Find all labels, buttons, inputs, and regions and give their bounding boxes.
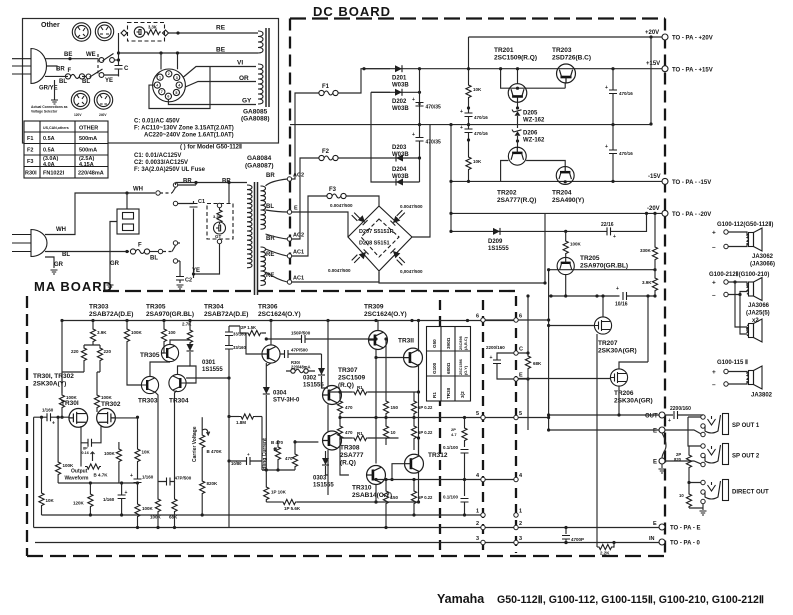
resistor 100K gate b bbox=[97, 372, 100, 393]
svg-text:TO - PA - E: TO - PA - E bbox=[670, 526, 701, 532]
svg-text:D205: D205 bbox=[523, 111, 538, 117]
svg-text:(R.Q): (R.Q) bbox=[340, 460, 356, 467]
wire idle bus bbox=[262, 417, 295, 471]
transistor TR205 bbox=[557, 257, 574, 274]
svg-text:240V: 240V bbox=[99, 113, 107, 117]
diode 0301 bbox=[187, 344, 194, 351]
svg-text:TR309: TR309 bbox=[364, 304, 384, 311]
svg-text:2SA777: 2SA777 bbox=[340, 452, 364, 459]
svg-text:–: – bbox=[712, 292, 716, 299]
resistor 470 a bbox=[328, 392, 352, 399]
svg-text:W03B: W03B bbox=[392, 174, 409, 180]
svg-text:WE: WE bbox=[86, 52, 96, 58]
lamp connector top bbox=[217, 203, 221, 207]
svg-text:150: 150 bbox=[391, 405, 399, 410]
fet TR301 bbox=[69, 409, 88, 428]
resistor 220 left bbox=[83, 345, 85, 346]
svg-text:330K: 330K bbox=[640, 248, 652, 253]
svg-text:–: – bbox=[712, 382, 716, 389]
TR302 gate wire right bbox=[115, 417, 137, 447]
svg-text:TR302: TR302 bbox=[101, 401, 121, 408]
svg-text:4.7: 4.7 bbox=[451, 432, 457, 437]
jack SP OUT 1 bbox=[705, 414, 729, 435]
DC board right border bbox=[664, 19, 666, 557]
drain resistor 100K c bbox=[118, 442, 120, 447]
svg-text:2200/160: 2200/160 bbox=[670, 406, 691, 412]
resistor 100K gate a bbox=[62, 372, 84, 393]
wires direct out bbox=[689, 474, 701, 492]
svg-text:D207 S5151R: D207 S5151R bbox=[359, 229, 394, 235]
resistor 5P0.22 a bbox=[413, 392, 415, 399]
svg-text:0304: 0304 bbox=[273, 391, 287, 397]
capacitor 470/16 b bbox=[465, 129, 473, 133]
wire TR201 collector to +15 rail bbox=[501, 69, 566, 89]
mid rail bbox=[290, 124, 651, 126]
svg-text:G100-212Ⅱ(G100-210): G100-212Ⅱ(G100-210) bbox=[709, 271, 769, 278]
TR310 emitter row bbox=[376, 501, 419, 503]
svg-text:3.9K: 3.9K bbox=[642, 280, 652, 285]
+15V rail bbox=[420, 68, 666, 70]
svg-text:+20V: +20V bbox=[645, 30, 659, 36]
svg-text:F: F bbox=[138, 243, 142, 249]
svg-text:10/80: 10/80 bbox=[231, 461, 242, 466]
source coupling cap 8P/0.16 bbox=[81, 426, 101, 443]
capacitor 2200/160 out bbox=[665, 414, 701, 416]
svg-text:0.1/100: 0.1/100 bbox=[443, 495, 459, 500]
svg-text:10: 10 bbox=[679, 493, 684, 498]
svg-text:120K: 120K bbox=[73, 501, 85, 506]
selector box frame bbox=[23, 19, 279, 144]
svg-text:D203: D203 bbox=[392, 145, 407, 151]
svg-text:3(2: 3(2 bbox=[460, 391, 465, 398]
svg-text:R30I: R30I bbox=[25, 171, 37, 177]
svg-text:Carrier Voltage: Carrier Voltage bbox=[192, 426, 198, 462]
bias row wire bbox=[549, 295, 655, 297]
fet TR206 bbox=[610, 369, 627, 386]
svg-text:0.5A: 0.5A bbox=[43, 148, 55, 154]
svg-text:100K: 100K bbox=[63, 463, 75, 468]
svg-text:IN: IN bbox=[649, 536, 655, 542]
wire AC2b to F2 bbox=[292, 158, 319, 239]
wire AC2 to F1 bbox=[292, 93, 319, 179]
svg-text:JA3802: JA3802 bbox=[751, 393, 773, 399]
lamp dashed box lower bbox=[207, 204, 233, 240]
svg-text:D201: D201 bbox=[392, 76, 407, 82]
svg-text:TR205: TR205 bbox=[580, 255, 600, 262]
svg-text:TR3II: TR3II bbox=[446, 388, 451, 399]
switch YE bbox=[86, 69, 104, 79]
svg-text:TR30I: TR30I bbox=[61, 400, 79, 407]
svg-text:+: + bbox=[52, 421, 55, 427]
svg-text:AC2: AC2 bbox=[293, 233, 304, 239]
resistor 3.3K lamp bbox=[219, 207, 221, 209]
diode D204 bbox=[371, 158, 420, 182]
svg-text:0,0047/500: 0,0047/500 bbox=[400, 269, 423, 274]
wire +20 to right column bbox=[650, 37, 652, 124]
svg-text:100K: 100K bbox=[570, 242, 582, 247]
svg-text:10K: 10K bbox=[473, 87, 482, 92]
svg-text:100K: 100K bbox=[101, 395, 113, 400]
svg-text:C: 0.01/AC 450V: C: 0.01/AC 450V bbox=[134, 119, 180, 125]
resistor 150 a bbox=[385, 339, 387, 399]
capacitor 1/160 b bbox=[121, 483, 123, 495]
diode 0303 bbox=[325, 451, 327, 458]
svg-text:1: 1 bbox=[519, 509, 522, 515]
AC terminal circles on DC border bbox=[287, 177, 291, 181]
svg-text:TR312: TR312 bbox=[428, 452, 448, 459]
svg-text:W03B: W03B bbox=[392, 83, 409, 89]
TR308 base wire bbox=[295, 442, 318, 452]
svg-text:2: 2 bbox=[168, 72, 170, 76]
svg-text:TR303: TR303 bbox=[89, 304, 109, 311]
svg-text:2.2K: 2.2K bbox=[600, 551, 610, 556]
wire AC1 to F3 bbox=[292, 196, 327, 256]
transistor TR204 bbox=[556, 167, 574, 185]
secondary to terminal wires bbox=[266, 179, 288, 282]
resistor 100K e col158 bbox=[155, 392, 159, 498]
svg-text:6: 6 bbox=[167, 95, 169, 99]
resistor 820K bbox=[200, 479, 205, 495]
svg-text:100K: 100K bbox=[142, 506, 154, 511]
MA board top border bbox=[103, 290, 517, 292]
svg-text:470/16: 470/16 bbox=[619, 91, 633, 96]
svg-text:GT: GT bbox=[215, 234, 222, 239]
wire E1 to jack1 sleeve bbox=[665, 430, 701, 434]
svg-text:Yamaha: Yamaha bbox=[437, 592, 485, 606]
svg-text:5: 5 bbox=[519, 411, 522, 417]
svg-text:2SK30A(GR): 2SK30A(GR) bbox=[598, 348, 637, 355]
svg-text:+: + bbox=[490, 355, 493, 361]
transistor TR203 bbox=[557, 64, 576, 83]
svg-text:GA8085: GA8085 bbox=[243, 109, 268, 116]
diode D201 bbox=[364, 68, 420, 70]
diode 0302 bbox=[321, 354, 323, 368]
svg-text:2SC1624(O.Y): 2SC1624(O.Y) bbox=[258, 311, 301, 318]
svg-text:SP OUT 1: SP OUT 1 bbox=[732, 423, 760, 429]
svg-text:( ) for Model G50-112Ⅱ: ( ) for Model G50-112Ⅱ bbox=[180, 144, 242, 151]
svg-text:GR: GR bbox=[54, 262, 64, 268]
resistor 470 idle bbox=[294, 440, 296, 442]
left mid vertical bbox=[228, 378, 230, 528]
svg-text:5P 0.22: 5P 0.22 bbox=[418, 430, 433, 435]
row5 to OUT column bbox=[518, 417, 548, 419]
svg-text:G100-115 Ⅱ: G100-115 Ⅱ bbox=[717, 359, 748, 366]
svg-text:SP OUT 2: SP OUT 2 bbox=[732, 454, 760, 460]
svg-text:1/160: 1/160 bbox=[142, 475, 154, 480]
ground (plug upper) bbox=[51, 100, 58, 104]
svg-text:100K: 100K bbox=[104, 451, 116, 456]
fusible R301 bbox=[291, 369, 308, 373]
capacitor C2 bbox=[179, 261, 181, 283]
svg-text:4: 4 bbox=[156, 84, 158, 88]
right filter column lower cap 470/16 bbox=[612, 125, 614, 150]
svg-text:STV-3H-0: STV-3H-0 bbox=[273, 398, 300, 404]
svg-text:(JA25(5): (JA25(5) bbox=[746, 311, 770, 317]
wire lamp box to RE bbox=[169, 32, 259, 34]
-20V rail bbox=[451, 212, 665, 214]
svg-text:MA BOARD: MA BOARD bbox=[34, 279, 113, 294]
resistor 1P 10K bbox=[264, 485, 269, 501]
svg-text:1P 10K: 1P 10K bbox=[271, 490, 287, 495]
wire E2 to jack2 sleeve bbox=[665, 461, 701, 464]
jack DIRECT OUT circles bbox=[701, 480, 705, 484]
cap 2200/160 C-E bbox=[497, 353, 514, 379]
svg-text:D208 S5151: D208 S5151 bbox=[359, 241, 390, 247]
svg-text:500mA: 500mA bbox=[79, 136, 97, 142]
transistor TR312 bbox=[405, 454, 424, 473]
svg-text:TR310: TR310 bbox=[352, 485, 372, 492]
MA board connector border bbox=[482, 300, 484, 553]
svg-text:TR308: TR308 bbox=[340, 445, 360, 452]
svg-text:5P 0.22: 5P 0.22 bbox=[418, 495, 433, 500]
svg-text:-20V: -20V bbox=[647, 206, 660, 212]
svg-text:820K: 820K bbox=[207, 481, 219, 486]
OUT terminal bbox=[659, 412, 665, 418]
plug lower ground bbox=[45, 257, 54, 268]
feedback cap 150P/500 bbox=[266, 338, 376, 340]
svg-text:GA8084: GA8084 bbox=[247, 155, 272, 162]
resistor 3.9K input bbox=[92, 321, 94, 328]
svg-text:820: 820 bbox=[674, 457, 682, 462]
capacitor 470/16 a bbox=[465, 113, 473, 117]
svg-text:2: 2 bbox=[519, 521, 522, 527]
resistor 2.2K bbox=[597, 544, 613, 549]
cap 4700P bbox=[565, 528, 567, 535]
DC board left border bbox=[289, 19, 291, 289]
svg-text:1S1555: 1S1555 bbox=[202, 367, 223, 373]
speaker 2b bbox=[747, 319, 762, 342]
speaker 1 wires bbox=[728, 232, 747, 247]
svg-text:E: E bbox=[653, 521, 657, 527]
svg-text:C2: 0.0033/AC125V: C2: 0.0033/AC125V bbox=[134, 160, 188, 166]
capacitor C bbox=[118, 33, 120, 76]
jack SP OUT 1 circles bbox=[701, 415, 705, 419]
transformer GA8085 core bbox=[266, 28, 269, 107]
svg-text:1: 1 bbox=[476, 509, 479, 515]
svg-text:100K: 100K bbox=[131, 330, 143, 335]
cap 47P/500 m bbox=[280, 353, 322, 355]
resistor 220 right bbox=[99, 345, 101, 346]
svg-text:WH: WH bbox=[56, 227, 66, 233]
fet TR207 bbox=[594, 317, 611, 334]
capacitor 10/16 bbox=[623, 292, 627, 300]
TR303-TR305 links bbox=[150, 340, 190, 376]
svg-text:OTHER: OTHER bbox=[79, 126, 98, 132]
bridge bottom wire to -20 bbox=[379, 213, 545, 283]
vertical bridge plus rail bbox=[450, 125, 452, 232]
fuse table frame bbox=[24, 121, 108, 178]
resistor 5P0.22 b bbox=[413, 418, 415, 425]
diode D203 bbox=[371, 157, 420, 159]
connector WH bbox=[156, 191, 160, 195]
svg-text:Waveform: Waveform bbox=[65, 476, 90, 482]
svg-text:C: C bbox=[124, 66, 129, 72]
svg-text:TO - PA - -15V: TO - PA - -15V bbox=[672, 180, 711, 186]
svg-text:W03B: W03B bbox=[392, 106, 409, 112]
wire BR stub bbox=[47, 66, 57, 70]
resistor 1.8M bbox=[229, 416, 239, 418]
switch WE bbox=[99, 54, 114, 63]
resistor 120K bbox=[89, 483, 91, 492]
fuse F lower bbox=[130, 249, 149, 254]
svg-text:0.0047/500: 0.0047/500 bbox=[328, 268, 351, 273]
svg-text:BL: BL bbox=[82, 79, 90, 85]
svg-text:C1: 0.01/AC125V: C1: 0.01/AC125V bbox=[134, 153, 181, 159]
svg-text:JA3066: JA3066 bbox=[748, 303, 770, 309]
svg-text:BE: BE bbox=[64, 52, 72, 58]
octal socket bbox=[153, 69, 186, 102]
top wire to transformer bbox=[176, 183, 248, 204]
pilot lamp bbox=[134, 27, 144, 37]
svg-text:+: + bbox=[412, 132, 415, 138]
svg-text:3: 3 bbox=[519, 536, 522, 542]
svg-text:B 470: B 470 bbox=[271, 440, 284, 445]
svg-text:WZ-162: WZ-162 bbox=[523, 118, 545, 124]
svg-text:3: 3 bbox=[176, 76, 178, 80]
svg-text:2SAB72A(D.E): 2SAB72A(D.E) bbox=[204, 311, 248, 318]
svg-text:47P/500: 47P/500 bbox=[291, 348, 308, 353]
svg-text:F3: F3 bbox=[27, 159, 33, 165]
svg-text:TR305: TR305 bbox=[146, 304, 166, 311]
svg-text:F: 3A(2.0A)250V UL Fuse: F: 3A(2.0A)250V UL Fuse bbox=[134, 167, 206, 173]
svg-text:680Ω: 680Ω bbox=[446, 362, 451, 374]
svg-text:E: E bbox=[519, 373, 523, 379]
svg-text:(JA3066): (JA3066) bbox=[750, 262, 775, 268]
svg-text:TR303: TR303 bbox=[138, 398, 158, 405]
svg-text:(GA8087): (GA8087) bbox=[245, 163, 274, 170]
bridge diodes bbox=[358, 215, 368, 225]
svg-text:3.3K: 3.3K bbox=[213, 214, 222, 219]
ground C2 bbox=[177, 285, 184, 289]
transistor TR305 bbox=[161, 344, 178, 361]
voltage selector roundel top-right bbox=[95, 22, 113, 40]
svg-text:0301: 0301 bbox=[202, 360, 216, 366]
svg-text:RE: RE bbox=[266, 252, 274, 258]
svg-text:TR304: TR304 bbox=[204, 304, 224, 311]
transistor TR309 bbox=[369, 331, 388, 350]
svg-text:500mA: 500mA bbox=[79, 148, 97, 154]
svg-text:FN1022I: FN1022I bbox=[43, 171, 65, 177]
svg-text:2SD726(B.C): 2SD726(B.C) bbox=[552, 55, 591, 62]
diode D202 bbox=[371, 91, 420, 93]
R1 selection table bbox=[427, 327, 471, 402]
E terminal 2 bbox=[659, 458, 665, 464]
svg-text:Idling Current: Idling Current bbox=[262, 438, 268, 471]
svg-text:F3: F3 bbox=[329, 187, 337, 193]
lamp connector bottom bbox=[217, 239, 221, 243]
svg-text:470/16: 470/16 bbox=[474, 131, 488, 136]
resistor 68K muting bbox=[527, 296, 529, 354]
left rail down bbox=[61, 321, 63, 394]
svg-text:4.0A: 4.0A bbox=[43, 162, 55, 168]
svg-text:2SA970(GR.BL): 2SA970(GR.BL) bbox=[146, 311, 194, 318]
zener D206 bbox=[517, 116, 519, 128]
transistor TR304 bbox=[169, 374, 186, 391]
TR205 base wire bbox=[549, 270, 655, 430]
svg-text:0.0047/500: 0.0047/500 bbox=[400, 204, 423, 209]
svg-text:-15V: -15V bbox=[648, 174, 661, 180]
-15V rail bbox=[451, 180, 665, 182]
svg-text:+: + bbox=[460, 125, 463, 131]
svg-text:G100: G100 bbox=[432, 362, 437, 374]
wires C/E to 68K column bbox=[518, 353, 528, 379]
ground (selector) bbox=[107, 285, 114, 289]
svg-text:TR305: TR305 bbox=[140, 352, 160, 359]
svg-text:TR3II: TR3II bbox=[398, 338, 414, 345]
voltage selector plug block bbox=[117, 209, 139, 234]
E terminal 1 bbox=[659, 427, 665, 433]
svg-text:1S1555: 1S1555 bbox=[313, 483, 334, 489]
MA/DC board bottom border bbox=[27, 555, 665, 557]
svg-text:2SC1624(O.Y): 2SC1624(O.Y) bbox=[364, 311, 407, 318]
svg-text:2SK30A(GR): 2SK30A(GR) bbox=[614, 398, 653, 405]
speaker 3 bbox=[747, 366, 762, 389]
transistor TR303 bbox=[141, 376, 158, 393]
svg-text:TR206: TR206 bbox=[614, 390, 634, 397]
svg-text:33/160: 33/160 bbox=[233, 345, 246, 350]
svg-text:BR: BR bbox=[183, 179, 192, 185]
svg-text:+: + bbox=[412, 97, 415, 103]
filter column x468.5: top stem bbox=[468, 37, 470, 83]
+15V terminal bbox=[662, 66, 668, 72]
DC board top border bbox=[290, 17, 665, 19]
svg-text:2: 2 bbox=[476, 521, 479, 527]
svg-text:4: 4 bbox=[519, 473, 523, 479]
svg-text:C2: C2 bbox=[185, 278, 192, 284]
svg-text:+: + bbox=[668, 418, 671, 424]
svg-text:10/16: 10/16 bbox=[615, 302, 628, 308]
svg-text:0.16: 0.16 bbox=[82, 451, 89, 455]
svg-text:470/35: 470/35 bbox=[426, 105, 442, 111]
svg-text:TO - PA - -20V: TO - PA - -20V bbox=[672, 212, 711, 218]
transistor TR202 bbox=[508, 147, 526, 165]
resistor 5P0.22 c bbox=[413, 480, 415, 490]
svg-text:Other: Other bbox=[41, 22, 60, 29]
svg-text:2P 1.5K: 2P 1.5K bbox=[241, 325, 256, 330]
svg-text:(A,B.C): (A,B.C) bbox=[464, 336, 468, 350]
wire BL with fuse F bbox=[45, 251, 129, 253]
svg-text:+: + bbox=[247, 452, 250, 457]
svg-text:2SC1509(R.Q): 2SC1509(R.Q) bbox=[494, 55, 537, 62]
svg-text:1P 5.6K: 1P 5.6K bbox=[284, 506, 301, 511]
TO-PA-0 terminal bbox=[659, 539, 665, 545]
svg-text:Actual Connections as: Actual Connections as bbox=[31, 105, 68, 109]
svg-text:AC220~240V Zone 1.6AT(1.0AT): AC220~240V Zone 1.6AT(1.0AT) bbox=[144, 133, 234, 139]
svg-text:TO - PA - +20V: TO - PA - +20V bbox=[672, 36, 713, 42]
svg-text:4.15A: 4.15A bbox=[79, 162, 94, 168]
svg-text:TR306: TR306 bbox=[258, 304, 278, 311]
svg-text:TR203: TR203 bbox=[552, 47, 572, 54]
svg-text:TR207: TR207 bbox=[598, 340, 618, 347]
svg-text:10: 10 bbox=[391, 430, 397, 435]
AC plug lower bbox=[12, 230, 47, 257]
capacitor 470/35 lower bbox=[419, 125, 421, 158]
svg-text:150: 150 bbox=[391, 495, 399, 500]
svg-text:0303: 0303 bbox=[313, 476, 327, 482]
capacitor 1/160 c bbox=[134, 479, 142, 483]
fet TR302 bbox=[97, 409, 116, 428]
resistor 330K bbox=[654, 213, 656, 245]
capacitor 22/16 bbox=[566, 213, 647, 231]
svg-text:470/16: 470/16 bbox=[619, 151, 633, 156]
svg-text:+: + bbox=[125, 490, 128, 496]
resistor 100 top bbox=[163, 321, 165, 328]
svg-text:1/160: 1/160 bbox=[42, 408, 54, 413]
resistor 100K d bbox=[137, 483, 139, 503]
cap 10/80 bbox=[229, 460, 262, 462]
svg-text:220: 220 bbox=[71, 349, 79, 354]
svg-text:4: 4 bbox=[178, 84, 180, 88]
